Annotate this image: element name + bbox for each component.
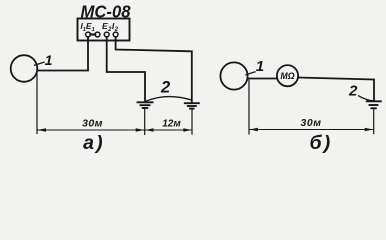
ground right auxiliary electrode (a) [185, 103, 199, 108]
leader tick for label 2 (b) [359, 96, 373, 101]
wire E2 to left auxiliary electrode [107, 37, 145, 102]
svg-text:б): б) [310, 132, 333, 154]
svg-text:1: 1 [45, 52, 53, 68]
jumper between I1 and E1 [90, 33, 95, 35]
witness line below right ground [191, 110, 193, 134]
megohmmeter MΩ [277, 65, 298, 86]
witness line below ground (b) [373, 110, 375, 134]
svg-text:30м: 30м [82, 118, 103, 130]
svg-text:2: 2 [348, 83, 358, 100]
svg-text:12м: 12м [162, 119, 181, 130]
leader tick for label 1 (b) [246, 72, 255, 75]
terminal E1 [95, 32, 100, 37]
wire I1 to electrode 1 [38, 37, 89, 71]
wire megohmmeter to electrode 2 (b) [298, 78, 374, 102]
electrode 1 (tested earth electrode, diagram a) [11, 55, 38, 82]
ground left auxiliary electrode (a) [138, 102, 153, 108]
terminal E2 [104, 32, 109, 37]
witness line below electrode 1 [36, 72, 38, 134]
terminal box U1 (МС-08 megger) [78, 19, 130, 41]
dimension line 30m (a) [38, 129, 144, 131]
terminal I1 [86, 32, 91, 37]
wire I2 to right auxiliary electrode [116, 37, 192, 103]
electrode 1 (tested earth electrode, diagram b) [220, 62, 247, 89]
witness line below left ground [144, 110, 146, 135]
link curve between the two electrodes 2 [146, 97, 192, 102]
svg-text:2: 2 [160, 79, 170, 97]
witness line below electrode 1 (b) [248, 80, 250, 134]
terminal I2 [113, 32, 118, 37]
svg-text:30м: 30м [301, 117, 322, 129]
dimension line 30m (b) [250, 129, 373, 131]
leader tick for label 1 (a) [35, 62, 45, 65]
dimension line 12m (a) [146, 129, 192, 131]
svg-text:1: 1 [256, 58, 264, 75]
svg-text:а): а) [83, 132, 105, 154]
ground electrode 2 (b) [367, 101, 381, 108]
wire electrode 1 to megohmmeter [248, 78, 277, 80]
svg-text:МΩ: МΩ [280, 71, 294, 81]
